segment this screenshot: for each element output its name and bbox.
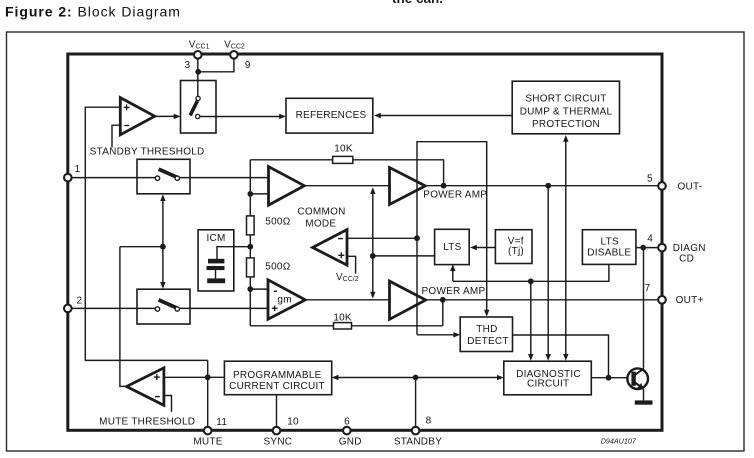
svg-text:6: 6 [344, 417, 350, 428]
svg-text:2: 2 [76, 295, 82, 306]
svg-text:SHORT CIRCUIT: SHORT CIRCUIT [525, 93, 606, 104]
svg-text:8: 8 [426, 416, 432, 427]
svg-text:DIAGN: DIAGN [673, 243, 706, 254]
svg-text:DUMP & THERMAL: DUMP & THERMAL [520, 107, 613, 118]
svg-text:MODE: MODE [305, 219, 336, 230]
svg-text:gm: gm [277, 295, 291, 306]
svg-text:MUTE THRESHOLD: MUTE THRESHOLD [99, 416, 195, 427]
svg-text:10: 10 [287, 417, 299, 428]
svg-text:D94AU107: D94AU107 [601, 436, 637, 445]
svg-text:500Ω: 500Ω [265, 216, 290, 227]
svg-text:GND: GND [339, 436, 362, 447]
svg-text:REFERENCES: REFERENCES [296, 110, 367, 121]
svg-text:OUT+: OUT+ [676, 295, 704, 306]
svg-text:CURRENT CIRCUIT: CURRENT CIRCUIT [229, 381, 325, 392]
svg-text:CD: CD [679, 254, 694, 265]
svg-text:DETECT: DETECT [467, 336, 509, 347]
svg-text:7: 7 [645, 283, 651, 294]
svg-text:9: 9 [245, 60, 251, 71]
svg-text:MUTE: MUTE [193, 436, 222, 447]
svg-text:PROTECTION: PROTECTION [532, 119, 600, 130]
svg-text:10K: 10K [333, 313, 352, 324]
svg-text:ICM: ICM [206, 233, 225, 244]
svg-text:4: 4 [647, 233, 653, 244]
svg-text:10K: 10K [334, 144, 353, 155]
svg-text:1: 1 [75, 164, 81, 175]
svg-text:11: 11 [216, 417, 227, 428]
svg-text:the can.: the can. [392, 0, 443, 6]
svg-text:POWER AMP: POWER AMP [422, 286, 486, 297]
svg-text:LTS: LTS [443, 242, 461, 253]
svg-text:DISABLE: DISABLE [587, 247, 631, 258]
svg-text:500Ω: 500Ω [265, 262, 290, 273]
svg-text:3: 3 [184, 60, 190, 71]
svg-text:5: 5 [647, 174, 653, 185]
svg-text:STANDBY THRESHOLD: STANDBY THRESHOLD [90, 147, 205, 158]
svg-text:THD: THD [476, 324, 497, 335]
svg-text:LTS: LTS [601, 236, 619, 247]
svg-text:Figure 2: Block Diagram: Figure 2: Block Diagram [5, 4, 181, 20]
svg-text:PROGRAMMABLE: PROGRAMMABLE [233, 370, 322, 381]
svg-text:SYNC: SYNC [264, 436, 293, 447]
svg-text:OUT-: OUT- [678, 182, 703, 193]
svg-text:POWER AMP: POWER AMP [423, 189, 487, 200]
svg-text:COMMON: COMMON [297, 207, 345, 218]
svg-text:STANDBY: STANDBY [394, 436, 442, 447]
svg-text:(Tj): (Tj) [508, 246, 524, 257]
svg-text:CIRCUIT: CIRCUIT [527, 379, 569, 390]
